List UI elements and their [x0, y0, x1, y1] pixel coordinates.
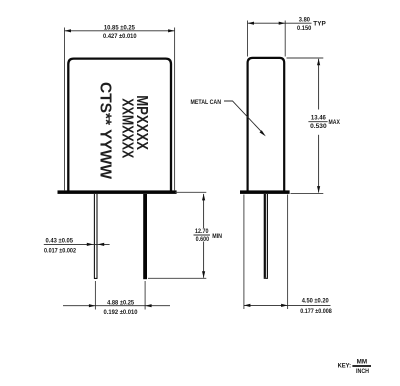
dimension 10.85: right arrowhead — [168, 29, 175, 32]
dimension 3.80: right extension line — [284, 21, 286, 57]
dimension 4.50: right extension line — [287, 195, 289, 310]
dimension 13.46: top extension line — [287, 57, 324, 59]
svg-text:CTS** YYWW: CTS** YYWW — [97, 82, 114, 180]
front view: can base flange — [58, 190, 177, 194]
svg-text:10.85 ±0.25: 10.85 ±0.25 — [104, 24, 135, 31]
svg-text:0.017 ±0.002: 0.017 ±0.002 — [44, 247, 76, 254]
svg-text:TYP: TYP — [313, 20, 326, 27]
dimension 4.50: dimension line with fraction bar — [244, 304, 331, 306]
svg-text:12.70: 12.70 — [195, 228, 209, 235]
svg-text:0.150: 0.150 — [297, 25, 312, 32]
dimension 0.43: dimension line through left lead — [44, 243, 110, 245]
side view: can base flange — [240, 190, 290, 194]
dimension 4.88: left-pointing arrowhead — [145, 304, 152, 307]
dimension 12.70: down arrowhead — [202, 271, 205, 278]
dimension 4.88: left extension line — [94, 281, 96, 310]
side view: lead (hollow, thick left wall) — [264, 194, 266, 278]
dimension 13.46: down arrowhead — [317, 186, 320, 193]
dimension 13.46: fraction bar — [308, 121, 327, 123]
dimension 10.85: left arrowhead — [65, 29, 72, 32]
dimension 13.46: up arrowhead — [317, 59, 320, 66]
svg-text:KEY:: KEY: — [338, 362, 352, 369]
svg-text:MM: MM — [357, 359, 368, 366]
dimension 3.80: dimension line with fraction bar — [248, 22, 312, 24]
dimension 10.85: right extension line — [174, 28, 176, 191]
dimension 12.70: upper dimension line segment — [203, 194, 205, 228]
dimension 4.88: right extension line — [144, 281, 146, 310]
dimension 4.50: left arrowhead — [244, 304, 251, 307]
dimension 4.88: right-pointing arrowhead — [89, 304, 96, 307]
front view: metal can body outline — [68, 59, 171, 191]
svg-text:MIN: MIN — [212, 233, 222, 240]
key fraction bar — [352, 365, 371, 367]
svg-text:METAL CAN: METAL CAN — [191, 99, 222, 106]
svg-text:0.192 ±0.010: 0.192 ±0.010 — [104, 309, 138, 316]
svg-text:13.46: 13.46 — [311, 114, 326, 121]
svg-text:INCH: INCH — [356, 368, 369, 375]
side view: metal can body outline — [248, 58, 285, 191]
dimension 12.70: bottom extension line — [148, 277, 206, 279]
dimension 12.70: top extension line — [175, 191, 206, 193]
svg-text:4.50 ±0.20: 4.50 ±0.20 — [302, 298, 329, 305]
dimension 3.80: right arrowhead — [279, 22, 286, 25]
front view: left lead (hollow) — [94, 194, 98, 278]
dimension 13.46: bottom extension line — [291, 192, 324, 194]
dimension 10.85: dimension line — [65, 30, 175, 32]
svg-text:0.43 ±0.05: 0.43 ±0.05 — [46, 237, 74, 244]
dimension 3.80: left extension line — [247, 21, 249, 57]
svg-text:0.530: 0.530 — [310, 123, 327, 130]
dimension 10.85: left extension line — [64, 28, 66, 191]
leader arrowhead — [260, 130, 266, 136]
dimension 12.70: fraction bar — [194, 234, 211, 236]
dimension 13.46: lower dimension line segment — [318, 135, 320, 193]
dimension 4.88: dimension line — [63, 305, 170, 307]
dimension 4.50: right arrowhead — [281, 304, 288, 307]
leader line from METAL CAN label — [224, 101, 263, 133]
svg-text:XXMXXXX: XXMXXXX — [118, 98, 135, 158]
svg-text:0.600: 0.600 — [196, 236, 210, 243]
dimension 0.43: left-pointing arrowhead at lead right edge — [98, 243, 105, 246]
dimension 12.70: up arrowhead — [202, 194, 205, 201]
svg-text:MAX: MAX — [329, 119, 341, 126]
svg-text:0.427 ±0.010: 0.427 ±0.010 — [103, 33, 137, 40]
dimension 0.43: right-pointing arrowhead at lead left edge — [87, 243, 94, 246]
front view: right lead (solid) — [143, 194, 147, 279]
dimension 12.70: lower dimension line segment — [203, 242, 205, 278]
svg-text:4.88 ±0.25: 4.88 ±0.25 — [107, 300, 134, 307]
dimension 3.80: left arrowhead — [248, 22, 255, 25]
dimension 4.50: left extension line — [243, 195, 245, 310]
dimension 13.46: upper dimension line segment — [318, 59, 320, 110]
svg-text:0.177 ±0.008: 0.177 ±0.008 — [300, 308, 332, 315]
svg-text:3.80: 3.80 — [299, 17, 311, 24]
